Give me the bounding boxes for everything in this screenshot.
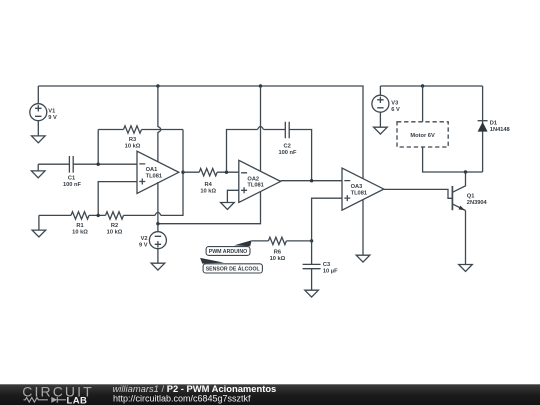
node R6 / C3 / OA3 plus: [310, 239, 313, 242]
wire OA2 output row to OA3 minus: [281, 180, 342, 182]
svg-text:R2: R2: [111, 223, 118, 229]
svg-text:TL081: TL081: [146, 174, 162, 180]
wire OA3 plus input down to R6 C3 node: [312, 198, 342, 241]
resistor R6: [268, 237, 286, 262]
svg-text:TL081: TL081: [351, 191, 367, 197]
wire top rail V1 to OA3 V+: [38, 86, 363, 178]
svg-text:R3: R3: [129, 137, 136, 143]
svg-text:10 kΩ: 10 kΩ: [107, 230, 123, 236]
node V2 top junction: [156, 222, 159, 225]
voltage source V3: [372, 86, 400, 127]
resistor R3: [124, 126, 142, 150]
wire OA1 plus input row: [98, 182, 137, 216]
svg-text:D1: D1: [490, 121, 497, 127]
op-amp OA1: [137, 151, 179, 193]
svg-text:OA2: OA2: [247, 176, 259, 182]
svg-text:R1: R1: [76, 223, 83, 229]
op-amp OA2: [239, 160, 281, 202]
node R1 R2 plus-input junction: [97, 214, 100, 217]
svg-text:9 V: 9 V: [48, 115, 57, 121]
svg-text:C3: C3: [323, 262, 330, 268]
wire feedback row OA1: [98, 130, 183, 173]
node rail/OA1 V+: [156, 84, 159, 87]
ground below V3: [374, 127, 388, 134]
motor M1 dashed box: [397, 122, 448, 147]
ground at OA2 plus input: [221, 203, 235, 210]
svg-text:OA3: OA3: [351, 184, 363, 190]
node OA2 out / C2 / OA3 minus: [310, 179, 313, 182]
svg-text:10 kΩ: 10 kΩ: [270, 256, 286, 262]
wire R1 R2 row: [39, 172, 183, 215]
ground below Q1 emitter: [459, 265, 473, 272]
svg-text:10 kΩ: 10 kΩ: [125, 144, 141, 150]
svg-text:10 µF: 10 µF: [323, 268, 338, 274]
resistor R1: [71, 212, 89, 236]
ground below V2: [151, 263, 165, 270]
svg-text:Motor 6V: Motor 6V: [410, 133, 435, 139]
resistor R4: [199, 169, 217, 195]
svg-text:SENSOR DE ÁLCOOL: SENSOR DE ÁLCOOL: [206, 266, 260, 273]
node rail/OA2 V+: [259, 84, 262, 87]
svg-text:OA1: OA1: [146, 167, 158, 173]
capacitor C3: [303, 241, 338, 290]
svg-text:10 kΩ: 10 kΩ: [200, 189, 216, 195]
svg-text:6 V: 6 V: [391, 107, 400, 113]
net flag PWM ARDUINO: [206, 240, 252, 255]
diode D1: [478, 86, 510, 172]
node C2 left / R4 row: [225, 171, 228, 174]
svg-text:1N4148: 1N4148: [490, 127, 510, 133]
svg-text:C2: C2: [284, 143, 291, 149]
op-amp OA3: [342, 168, 384, 210]
wire C2 feedback loop with hop over OA2 V+: [227, 127, 312, 181]
wire motor top pin: [422, 86, 424, 122]
svg-text:10 kΩ: 10 kΩ: [72, 230, 88, 236]
svg-text:9 V: 9 V: [139, 243, 148, 249]
transistor Q1: [452, 172, 487, 265]
wire OA1 V+ pin with hop over feedback: [158, 86, 161, 162]
svg-text:100 nF: 100 nF: [63, 182, 82, 188]
svg-text:100 nF: 100 nF: [278, 150, 297, 156]
wire motor bottom pin to row: [423, 147, 483, 172]
wire OA3 V- pin to ground: [362, 200, 364, 255]
svg-text:V1: V1: [48, 109, 55, 115]
svg-text:V2: V2: [141, 236, 148, 242]
capacitor C1: [63, 156, 82, 188]
svg-text:Q1: Q1: [467, 193, 475, 199]
wire OA2 V+ pin: [260, 86, 262, 171]
wire OA1 output to R4 to OA2: [183, 171, 239, 173]
svg-text:williamars1 / P2 - PWM Acionam: williamars1 / P2 - PWM Acionamentos: [113, 383, 277, 394]
node OA1 output junction: [181, 171, 184, 174]
wire PWM node to R6 to junction: [252, 240, 312, 242]
svg-text:R6: R6: [274, 249, 281, 255]
capacitor C2: [278, 122, 297, 156]
wire OA1 V- pin down to V2: [157, 182, 159, 224]
svg-text:LAB: LAB: [67, 395, 88, 405]
ground below C3: [305, 290, 319, 297]
wire OA3 output to Q1 base: [384, 189, 453, 198]
wire C1 row to OA1 minus input: [38, 163, 137, 165]
svg-text:2N3904: 2N3904: [467, 200, 488, 206]
svg-text:PWM ARDUINO: PWM ARDUINO: [209, 249, 248, 255]
voltage source V2: [139, 224, 166, 264]
wire V- rail to OA2: [158, 191, 261, 224]
ground below V1: [32, 136, 46, 143]
footer bar: [0, 383, 540, 405]
svg-text:http://circuitlab.com/c6845g7s: http://circuitlab.com/c6845g7ssztkf: [113, 394, 251, 404]
voltage source V1: [30, 86, 57, 136]
node motor/D1 row collector junction: [464, 170, 467, 173]
ground below OA3: [356, 255, 370, 262]
svg-text:V3: V3: [391, 101, 398, 107]
node feedback / C1 row: [97, 163, 100, 166]
wire OA2 plus input to ground: [227, 190, 238, 202]
node V3 rail / motor: [421, 84, 424, 87]
svg-text:R4: R4: [205, 182, 213, 188]
svg-text:C1: C1: [68, 175, 75, 181]
resistor R2: [106, 212, 124, 236]
net flag SENSOR DE ALCOOL: [200, 258, 262, 273]
ground left of C1: [31, 164, 45, 178]
svg-text:TL081: TL081: [247, 183, 263, 189]
ground left of R1: [32, 215, 46, 237]
wire V3 top rail: [380, 85, 482, 87]
